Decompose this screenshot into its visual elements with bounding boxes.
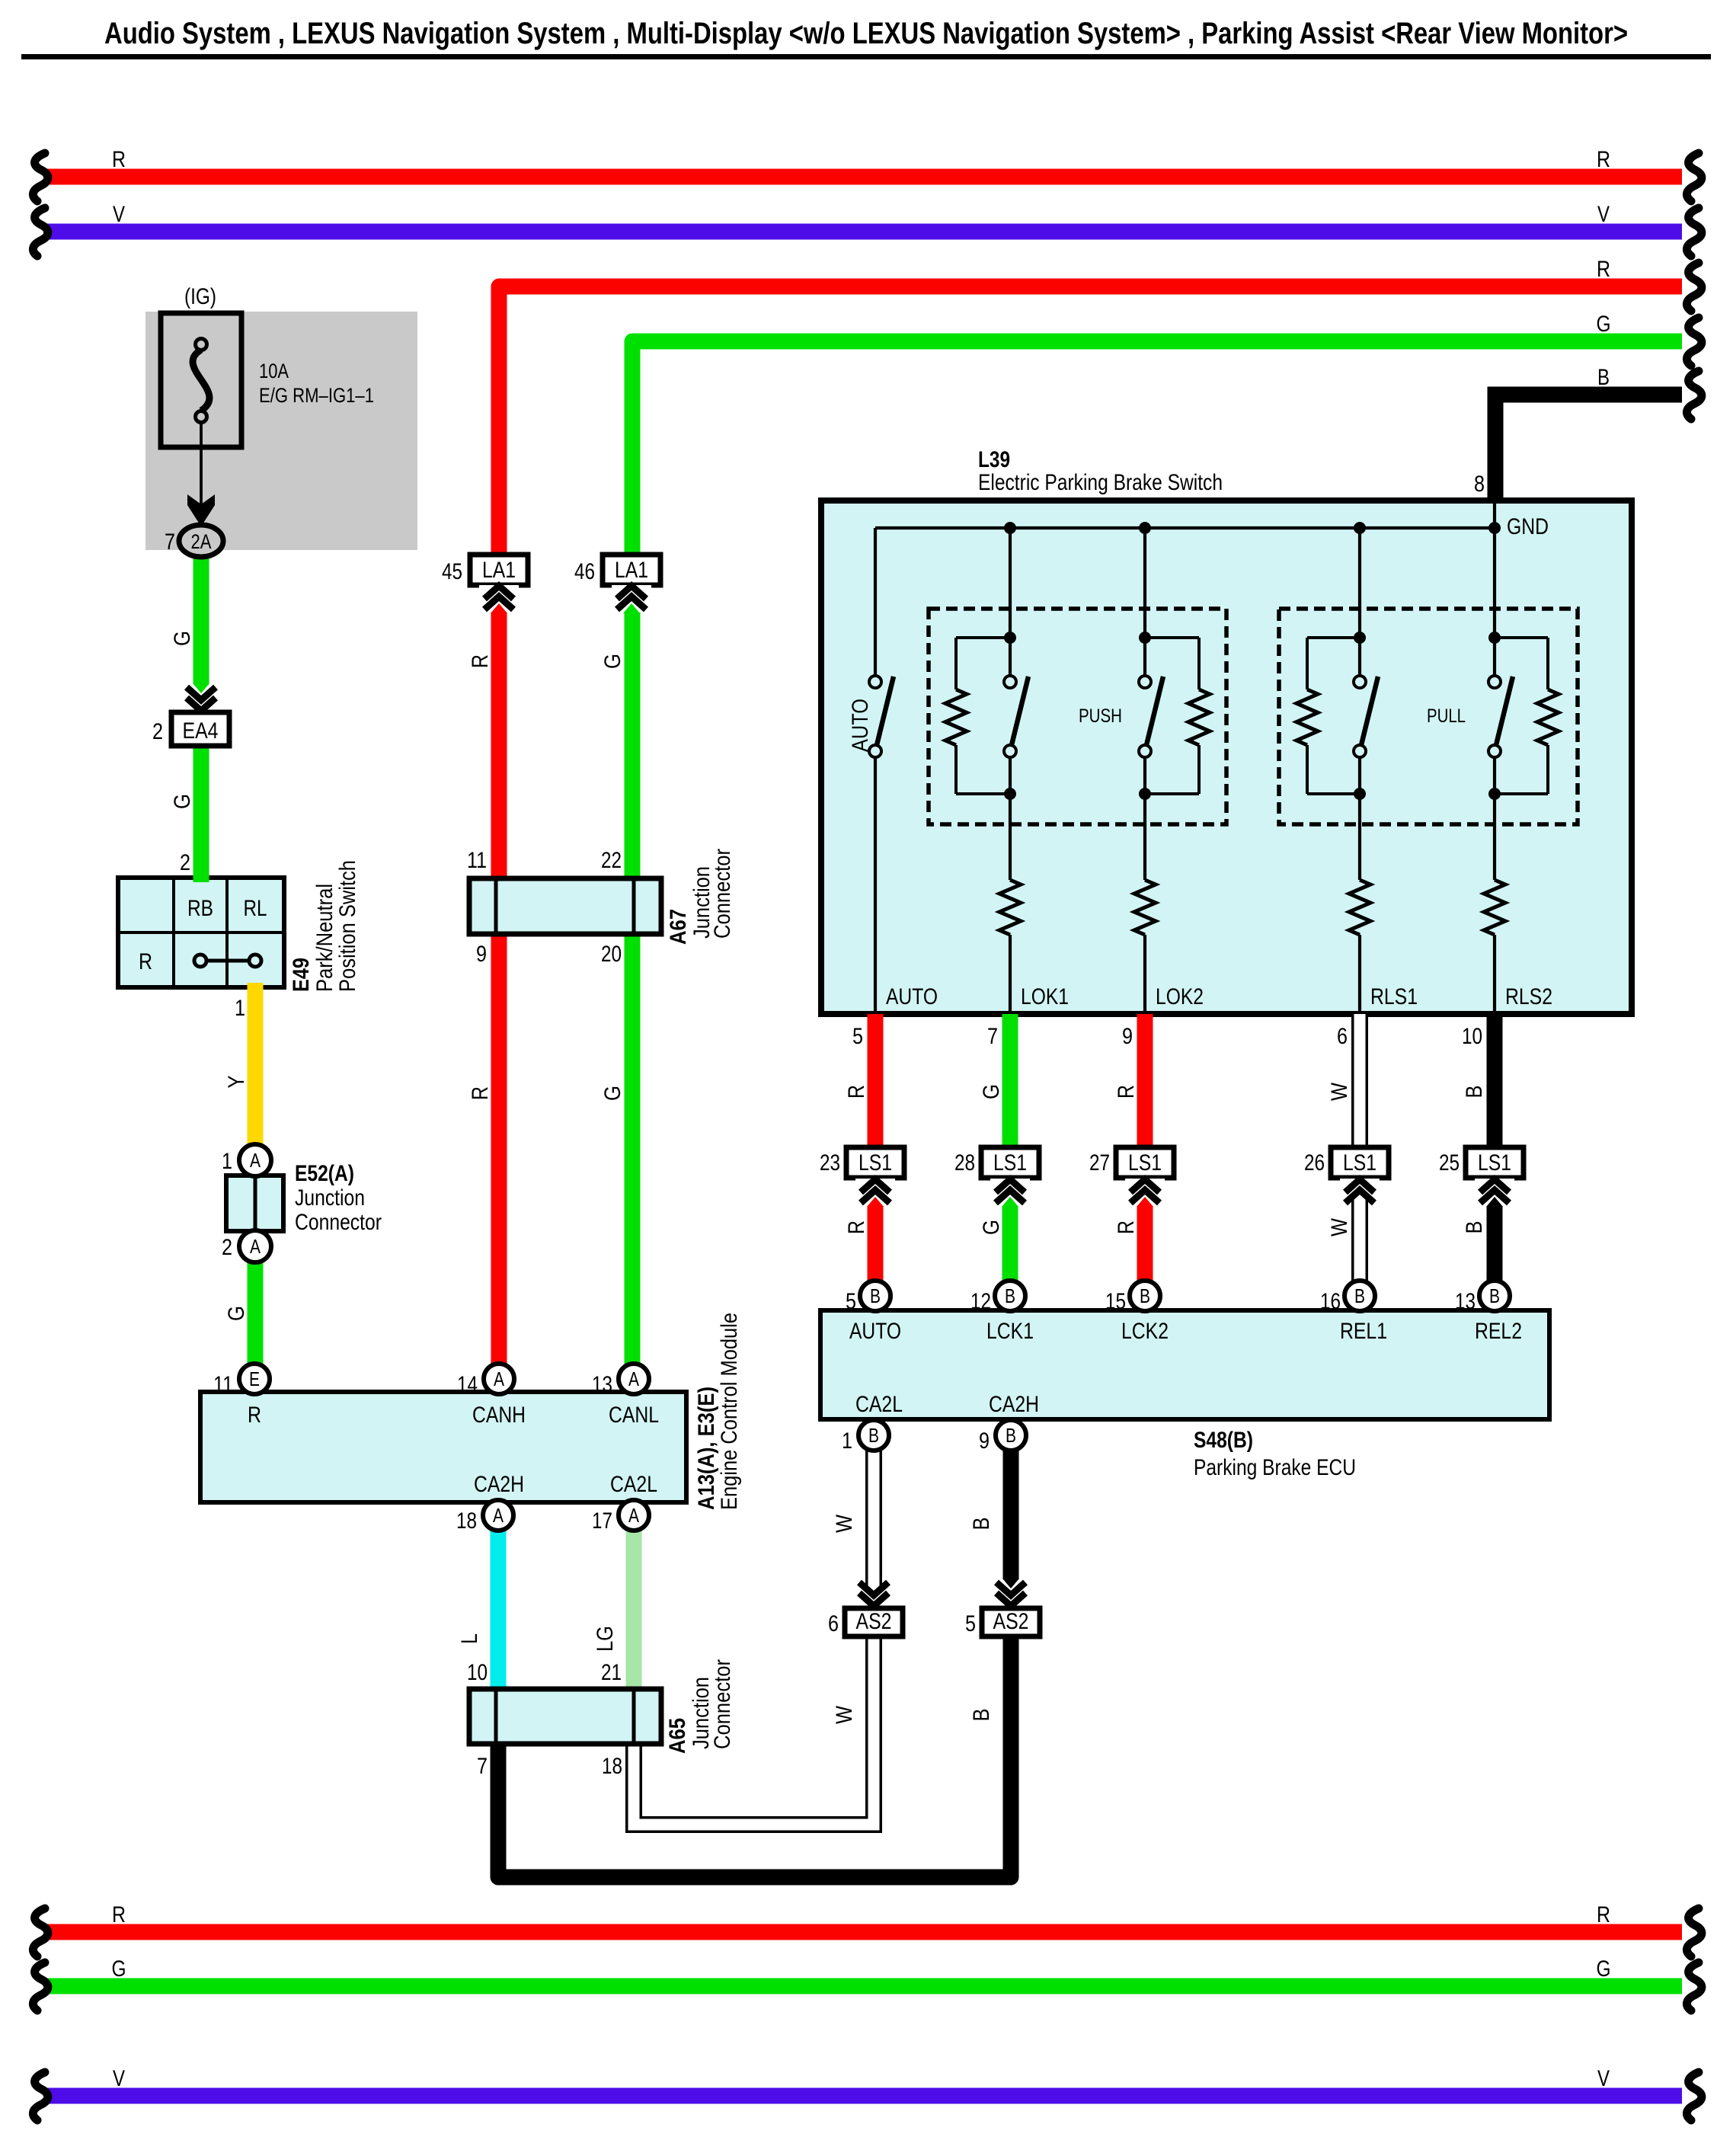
title underline rule xyxy=(21,54,1711,59)
svg-text:Audio System , LEXUS Navigatio: Audio System , LEXUS Navigation System ,… xyxy=(104,17,1628,50)
svg-text:Connector: Connector xyxy=(710,849,735,939)
S48 pin 13 (B) xyxy=(1455,1281,1510,1314)
svg-text:10: 10 xyxy=(467,1660,488,1685)
E49 internal switch contacts xyxy=(194,955,261,967)
svg-text:Engine Control Module: Engine Control Module xyxy=(717,1313,742,1510)
wire label B (AS2-A65) xyxy=(969,1709,994,1722)
svg-text:RLS2: RLS2 xyxy=(1505,984,1552,1009)
A67 labels xyxy=(467,848,735,967)
connector 46 LA1 xyxy=(574,555,660,613)
svg-text:B: B xyxy=(1005,1284,1015,1307)
svg-text:13: 13 xyxy=(592,1372,612,1397)
switch RLS2 contact (PULL) xyxy=(1488,528,1513,880)
wire label L xyxy=(457,1633,482,1644)
svg-text:Connector: Connector xyxy=(710,1659,735,1749)
svg-text:A: A xyxy=(493,1504,504,1527)
junction dot LOK2 top xyxy=(1139,522,1151,534)
svg-text:Connector: Connector xyxy=(295,1210,382,1235)
connector 5 AS2 xyxy=(965,1579,1040,1636)
S48 pin 1 (B) xyxy=(842,1420,889,1454)
junction connector A65 (body) xyxy=(469,1689,661,1744)
bus wire V (bottom) xyxy=(33,2066,1701,2120)
svg-text:2: 2 xyxy=(152,719,163,744)
svg-text:R: R xyxy=(468,1086,493,1100)
svg-text:45: 45 xyxy=(442,559,462,584)
svg-text:5: 5 xyxy=(852,1024,863,1049)
wire label R (AUTO lower) xyxy=(844,1220,869,1234)
svg-text:G: G xyxy=(600,654,625,669)
svg-text:W: W xyxy=(1327,1082,1352,1101)
switch LOK2 contact (PUSH) xyxy=(1139,528,1163,880)
connector 28 LS1 xyxy=(954,1147,1039,1207)
svg-text:R: R xyxy=(468,654,493,668)
svg-text:Electric Parking Brake Switch: Electric Parking Brake Switch xyxy=(978,470,1223,495)
connector 7 2A (fuse output) xyxy=(165,525,223,557)
L39 labels xyxy=(978,447,1549,539)
svg-text:LOK1: LOK1 xyxy=(1021,984,1069,1009)
svg-text:12: 12 xyxy=(970,1289,991,1314)
wire B ECU CA2H to A65 pin7 xyxy=(498,1451,1011,1877)
svg-text:9: 9 xyxy=(476,942,487,967)
svg-text:G: G xyxy=(170,794,195,809)
svg-text:1: 1 xyxy=(222,1149,232,1174)
svg-text:G: G xyxy=(170,631,195,646)
wire Y E49 pin1 to E52(A) pin1 xyxy=(248,983,264,1146)
ECM pin 11 (E) xyxy=(213,1364,270,1397)
wire label R (LOK2 upper) xyxy=(1114,1085,1139,1099)
L39 pin numbers bottom xyxy=(852,472,1485,1049)
svg-text:18: 18 xyxy=(602,1754,622,1779)
connector 6 AS2 xyxy=(828,1577,903,1636)
svg-text:L39: L39 xyxy=(978,447,1010,472)
svg-text:B: B xyxy=(969,1709,994,1722)
ECM pin 18 (A) xyxy=(456,1500,513,1534)
E49 pin numbers xyxy=(180,850,245,1021)
svg-text:7: 7 xyxy=(165,529,175,555)
svg-text:27: 27 xyxy=(1089,1150,1110,1176)
svg-text:V: V xyxy=(1597,2066,1610,2091)
svg-text:R: R xyxy=(844,1220,869,1234)
svg-text:G: G xyxy=(979,1084,1004,1099)
wire label W (RLS1 upper) xyxy=(1327,1082,1352,1101)
svg-text:9: 9 xyxy=(1122,1024,1133,1049)
svg-text:R: R xyxy=(112,1902,126,1927)
svg-text:2: 2 xyxy=(180,850,190,875)
svg-text:B: B xyxy=(1462,1221,1487,1234)
wire label G (fuse-EA4) xyxy=(170,631,195,646)
svg-text:R: R xyxy=(139,949,152,974)
L39 internal bus wire xyxy=(875,504,1495,528)
svg-text:B: B xyxy=(1140,1284,1150,1307)
wire label R (LOK2 lower) xyxy=(1114,1220,1139,1234)
svg-text:11: 11 xyxy=(213,1372,233,1397)
S48 pin 15 (B) xyxy=(1105,1281,1160,1314)
ECM pin 17 (A) xyxy=(592,1500,649,1534)
svg-text:14: 14 xyxy=(457,1372,478,1397)
svg-text:R: R xyxy=(844,1085,869,1099)
svg-text:CANH: CANH xyxy=(472,1403,526,1428)
svg-text:G: G xyxy=(979,1220,1004,1235)
connector 27 LS1 xyxy=(1089,1147,1174,1207)
svg-text:LG: LG xyxy=(593,1626,618,1652)
resistor on RLS1 output xyxy=(1349,880,1370,1014)
E49 cell labels xyxy=(139,896,267,974)
svg-text:G: G xyxy=(600,1086,625,1101)
svg-text:RL: RL xyxy=(244,896,267,921)
svg-text:E: E xyxy=(249,1367,260,1390)
wire label R (LA1-45 above) xyxy=(468,654,493,668)
svg-text:A65: A65 xyxy=(665,1718,690,1754)
svg-text:RB: RB xyxy=(187,896,213,921)
wire label G (LOK1 upper) xyxy=(979,1084,1004,1099)
svg-text:V: V xyxy=(1597,202,1610,227)
svg-text:W: W xyxy=(832,1514,857,1533)
svg-text:Position Switch: Position Switch xyxy=(335,860,360,992)
svg-text:9: 9 xyxy=(979,1428,990,1454)
svg-text:R: R xyxy=(112,147,126,172)
svg-text:46: 46 xyxy=(574,559,595,584)
svg-text:R: R xyxy=(1597,147,1610,172)
wire R L39 AUTO to ECU pin5 xyxy=(868,1014,884,1281)
svg-text:6: 6 xyxy=(1337,1024,1348,1049)
wire label B (RLS2 upper) xyxy=(1462,1086,1487,1099)
svg-text:R: R xyxy=(1114,1085,1139,1099)
wire G E52(A) pin2 to ECM pin 11 xyxy=(248,1259,264,1364)
switch E49 Park/Neutral Position Switch (body) xyxy=(118,878,284,987)
svg-text:5: 5 xyxy=(965,1611,976,1636)
svg-text:7: 7 xyxy=(477,1754,488,1779)
svg-text:A: A xyxy=(628,1504,640,1527)
svg-text:11: 11 xyxy=(467,848,487,873)
svg-text:A: A xyxy=(250,1149,261,1172)
resistor parallel with RLS1 switch xyxy=(1297,638,1360,794)
junction dots RLS1 branch xyxy=(1354,632,1366,800)
svg-text:(IG): (IG) xyxy=(184,284,216,309)
ignition supply panel (IG) gray area xyxy=(145,284,417,550)
wire G fuse to E49 pin 2 xyxy=(193,542,209,882)
wire label B (CA2H-AS2) xyxy=(969,1518,994,1531)
ECM A13(A), E3(E) Engine Control Module (body) xyxy=(200,1392,686,1502)
svg-text:17: 17 xyxy=(592,1508,612,1534)
svg-text:7: 7 xyxy=(987,1024,998,1049)
junction dot LOK1 top xyxy=(1004,522,1016,534)
switch AUTO (L39) xyxy=(848,528,894,1014)
svg-text:B: B xyxy=(1462,1086,1487,1099)
wire label W (RLS1 lower) xyxy=(1327,1217,1352,1236)
bus wire V (top) xyxy=(33,202,1701,256)
wire label G (E52-ECM) xyxy=(224,1306,249,1321)
svg-text:A: A xyxy=(250,1235,261,1258)
svg-text:V: V xyxy=(113,202,125,227)
wire label R (A67-ECM) xyxy=(468,1086,493,1100)
svg-text:G: G xyxy=(224,1306,249,1321)
svg-text:1: 1 xyxy=(842,1428,852,1454)
title text: Audio System , LEXUS Navigation System , Multi-Display <w/o LEXUS Navigation System> , Parking Assist <Rear View Monitor> xyxy=(104,17,1628,50)
svg-text:B: B xyxy=(1354,1284,1365,1307)
svg-text:13: 13 xyxy=(1455,1289,1476,1314)
svg-text:A13(A), E3(E): A13(A), E3(E) xyxy=(694,1387,719,1510)
svg-text:R: R xyxy=(248,1403,261,1428)
wire label G (EA4-E49) xyxy=(170,794,195,809)
svg-text:LA1: LA1 xyxy=(615,558,648,583)
ECU S48(B) Parking Brake ECU (body) xyxy=(820,1310,1549,1419)
svg-text:23: 23 xyxy=(820,1150,840,1176)
S48 pin 9 (B) xyxy=(979,1420,1026,1454)
connector 25 LS1 xyxy=(1439,1147,1524,1207)
svg-text:LS1: LS1 xyxy=(859,1150,892,1176)
wire label G (LOK1 lower) xyxy=(979,1220,1004,1235)
svg-text:L: L xyxy=(457,1633,482,1644)
svg-text:REL2: REL2 xyxy=(1475,1319,1522,1344)
svg-text:RLS1: RLS1 xyxy=(1370,984,1418,1009)
svg-text:V: V xyxy=(113,2066,125,2091)
svg-text:B: B xyxy=(1489,1284,1500,1307)
bus wire R (top) xyxy=(33,147,1701,201)
svg-text:B: B xyxy=(868,1424,879,1447)
svg-text:REL1: REL1 xyxy=(1340,1319,1387,1344)
wire B from bus to L39 pin 8 xyxy=(1495,365,1702,504)
arrow from fuse to connector 2A xyxy=(187,422,215,526)
switch RLS1 contact (PULL) xyxy=(1354,528,1378,880)
svg-text:B: B xyxy=(1597,365,1610,390)
svg-text:LCK2: LCK2 xyxy=(1121,1319,1169,1344)
svg-text:R: R xyxy=(1597,1902,1610,1927)
svg-text:S48(B): S48(B) xyxy=(1194,1428,1253,1453)
svg-text:CA2L: CA2L xyxy=(855,1392,903,1417)
connector 45 LA1 xyxy=(442,555,528,613)
svg-text:EA4: EA4 xyxy=(183,718,219,744)
junction dots RLS2 branch xyxy=(1488,632,1501,800)
svg-text:A: A xyxy=(494,1367,505,1390)
svg-text:CANL: CANL xyxy=(609,1403,659,1428)
dashed box PUSH xyxy=(929,609,1226,824)
svg-text:AUTO: AUTO xyxy=(886,984,938,1009)
svg-text:AUTO: AUTO xyxy=(848,699,873,752)
wire W L39 RLS1 to ECU pin16 xyxy=(1351,1014,1368,1281)
svg-text:A67: A67 xyxy=(666,909,691,945)
svg-text:Parking Brake ECU: Parking Brake ECU xyxy=(1194,1455,1356,1480)
svg-text:2: 2 xyxy=(222,1235,232,1260)
dashed box PULL xyxy=(1279,609,1578,824)
svg-text:26: 26 xyxy=(1304,1150,1325,1176)
svg-text:2A: 2A xyxy=(191,530,212,553)
resistor on LOK1 output xyxy=(999,880,1021,1014)
svg-text:LS1: LS1 xyxy=(993,1150,1027,1176)
wire R L39 LOK2 to ECU pin15 xyxy=(1137,1014,1153,1281)
svg-text:E/G RM–IG1–1: E/G RM–IG1–1 xyxy=(259,384,374,407)
wire label R (AUTO upper) xyxy=(844,1085,869,1099)
svg-text:AUTO: AUTO xyxy=(849,1319,901,1344)
svg-text:22: 22 xyxy=(601,848,622,873)
junction dot RLS1 top xyxy=(1354,522,1366,534)
svg-text:GND: GND xyxy=(1507,514,1549,539)
svg-text:B: B xyxy=(969,1518,994,1531)
ECM pin 13 (A) xyxy=(592,1364,649,1397)
S48 pin 5 (B) xyxy=(846,1281,890,1314)
wire L ECM CA2H to A65 pin10 xyxy=(491,1529,507,1689)
svg-text:6: 6 xyxy=(828,1611,839,1636)
svg-text:20: 20 xyxy=(601,942,622,967)
svg-text:G: G xyxy=(112,1956,126,1982)
svg-text:E52(A): E52(A) xyxy=(295,1161,354,1186)
S48 pin 16 (B) xyxy=(1320,1281,1375,1314)
wire label Y xyxy=(224,1076,249,1089)
S48 pin 12 (B) xyxy=(970,1281,1025,1314)
wire label B (RLS2 lower) xyxy=(1462,1221,1487,1234)
wire label W (AS2-A65) xyxy=(832,1705,857,1724)
svg-text:LS1: LS1 xyxy=(1128,1150,1162,1176)
fuse 10A E/G RM-IG1-1 xyxy=(161,313,374,447)
svg-text:CA2H: CA2H xyxy=(474,1472,524,1497)
svg-text:Park/Neutral: Park/Neutral xyxy=(312,884,337,992)
svg-text:10A: 10A xyxy=(259,360,289,382)
resistor parallel with LOK2 switch xyxy=(1145,638,1210,794)
svg-text:PUSH: PUSH xyxy=(1079,705,1122,727)
svg-text:LOK2: LOK2 xyxy=(1156,984,1204,1009)
connector 2 EA4 xyxy=(152,683,229,746)
junction connector A67 (body) xyxy=(469,878,661,934)
ECM side label A13(A), E3(E) Engine Control Module xyxy=(694,1313,742,1510)
connector 26 LS1 xyxy=(1304,1147,1389,1208)
resistor parallel with LOK1 switch xyxy=(945,638,1010,794)
svg-text:W: W xyxy=(1327,1217,1352,1236)
svg-text:AS2: AS2 xyxy=(856,1609,892,1634)
svg-text:LCK1: LCK1 xyxy=(986,1319,1034,1344)
junction connector E52(A) xyxy=(222,1144,382,1262)
svg-text:Y: Y xyxy=(224,1076,249,1089)
resistor on LOK2 output xyxy=(1134,880,1156,1014)
E49 side label Park/Neutral Position Switch xyxy=(289,860,360,992)
svg-text:1: 1 xyxy=(235,996,245,1021)
svg-text:R: R xyxy=(1597,257,1610,282)
svg-text:B: B xyxy=(1006,1424,1016,1447)
resistor parallel with RLS2 switch xyxy=(1495,638,1559,794)
switch LOK1 contact (PUSH) xyxy=(1004,528,1028,880)
svg-text:Junction: Junction xyxy=(295,1185,365,1211)
junction dots LOK2 branch xyxy=(1139,632,1151,800)
junction dots LOK1 branch xyxy=(1004,632,1016,800)
A65 labels xyxy=(467,1659,735,1779)
svg-text:28: 28 xyxy=(954,1150,975,1176)
wire label LG xyxy=(593,1626,618,1652)
svg-text:18: 18 xyxy=(456,1508,477,1534)
svg-text:G: G xyxy=(1597,1956,1611,1982)
ECM labels xyxy=(248,1403,659,1497)
wire R from bus to LA1-45 and ECM CANH xyxy=(499,257,1702,1364)
ECM pin 14 (A) xyxy=(457,1364,514,1397)
svg-text:25: 25 xyxy=(1439,1150,1460,1176)
L39 terminal names xyxy=(886,984,1552,1009)
wire label W (CA2L-AS2) xyxy=(832,1514,857,1533)
svg-text:A: A xyxy=(628,1367,640,1390)
svg-text:LS1: LS1 xyxy=(1343,1150,1376,1176)
wire LG ECM CA2L to A65 pin21 xyxy=(626,1529,642,1689)
S48 labels xyxy=(849,1319,1522,1480)
svg-text:CA2L: CA2L xyxy=(610,1472,657,1497)
switch L39 Electric Parking Brake Switch (body) xyxy=(821,501,1632,1014)
svg-text:CA2H: CA2H xyxy=(989,1392,1039,1417)
svg-text:15: 15 xyxy=(1105,1289,1126,1314)
svg-text:21: 21 xyxy=(601,1660,622,1685)
svg-text:R: R xyxy=(1114,1220,1139,1234)
svg-text:8: 8 xyxy=(1474,472,1485,497)
svg-text:W: W xyxy=(832,1705,857,1724)
connector 23 LS1 xyxy=(820,1147,904,1207)
junction dot GND xyxy=(1488,522,1501,534)
svg-text:LS1: LS1 xyxy=(1478,1150,1511,1176)
svg-text:E49: E49 xyxy=(289,958,314,992)
svg-text:B: B xyxy=(870,1284,881,1307)
wire label G (A67-ECM) xyxy=(600,1086,625,1101)
svg-text:LA1: LA1 xyxy=(482,558,516,583)
wire G from bus to LA1-46 and ECM CANL xyxy=(632,312,1702,1364)
wire W ECU CA2L to A65 pin18 xyxy=(634,1451,874,1825)
wire B L39 RLS2 to ECU pin13 xyxy=(1487,1014,1503,1281)
bus wire G (bottom) xyxy=(33,1956,1701,2010)
wire G L39 LOK1 to ECU pin12 xyxy=(1002,1014,1018,1281)
svg-text:10: 10 xyxy=(1462,1024,1482,1049)
svg-text:16: 16 xyxy=(1320,1289,1341,1314)
resistor on RLS2 output xyxy=(1484,880,1505,1014)
bus wire R (bottom) xyxy=(33,1902,1701,1956)
svg-text:AS2: AS2 xyxy=(993,1609,1029,1634)
wire label G (LA1-46 above) xyxy=(600,654,625,669)
svg-text:5: 5 xyxy=(846,1289,856,1314)
svg-text:G: G xyxy=(1597,312,1611,337)
svg-text:PULL: PULL xyxy=(1427,705,1466,727)
